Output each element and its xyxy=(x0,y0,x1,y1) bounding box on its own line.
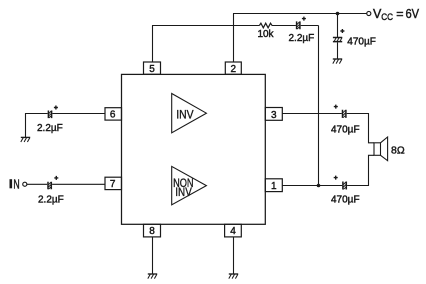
pin 4 xyxy=(225,224,242,237)
resistor R1 10k xyxy=(259,23,272,28)
svg-text:INV: INV xyxy=(176,107,193,121)
svg-text:7: 7 xyxy=(110,179,116,190)
svg-text:=: = xyxy=(396,7,403,21)
node junction on VCC rail xyxy=(336,12,340,16)
speaker LS1 xyxy=(374,137,405,161)
terminal VCC xyxy=(367,11,371,15)
wire cap to pin 7 xyxy=(52,183,105,185)
node junction at pin1 wire xyxy=(317,184,321,188)
wire resistor to cap xyxy=(272,25,296,27)
wire cap to speaker top xyxy=(347,114,374,143)
pin 5 xyxy=(144,62,161,75)
svg-text:2.2µF: 2.2µF xyxy=(37,123,63,134)
op-amp INV xyxy=(172,94,207,133)
svg-text:2.2µF: 2.2µF xyxy=(38,195,64,206)
capacitor C out-bottom 470uF xyxy=(331,176,360,206)
wire VCC rail xyxy=(233,13,367,15)
wire IN to cap xyxy=(27,183,48,185)
svg-text:2.2µF: 2.2µF xyxy=(289,33,315,44)
capacitor C out-top 470uF xyxy=(331,105,360,136)
svg-text:6: 6 xyxy=(110,110,116,121)
wire ground up and right to cap xyxy=(26,114,48,138)
wire cap to feedback drop xyxy=(301,25,319,27)
pin 3 xyxy=(265,108,282,121)
ground decoupling xyxy=(333,58,342,60)
svg-text:1: 1 xyxy=(271,181,277,192)
wire pin1 output xyxy=(282,185,342,187)
svg-text:4: 4 xyxy=(230,226,236,237)
svg-text:5: 5 xyxy=(149,64,155,75)
wire pin3 output xyxy=(282,113,342,115)
svg-text:6V: 6V xyxy=(406,7,420,21)
wire VCC to decoupling cap xyxy=(337,14,339,38)
wire feedback drop xyxy=(318,26,320,186)
svg-text:470µF: 470µF xyxy=(331,194,360,205)
svg-text:2: 2 xyxy=(231,64,237,75)
wire cap to ground xyxy=(337,42,339,59)
svg-text:470µF: 470µF xyxy=(347,37,376,48)
pin 2 xyxy=(225,62,241,75)
pin 6 xyxy=(105,108,122,121)
pin 1 xyxy=(265,179,282,192)
wire pin2 riser xyxy=(233,14,235,63)
input top branch: ground xyxy=(21,136,30,138)
wire pin 4 to ground xyxy=(233,237,235,274)
svg-text:3: 3 xyxy=(271,110,277,121)
ground pin 8 xyxy=(148,273,157,275)
pin 7 xyxy=(105,177,122,190)
wire pin 8 to ground xyxy=(152,237,154,274)
IC U1 body xyxy=(122,74,266,224)
ground pin 4 xyxy=(229,273,238,275)
svg-text:8: 8 xyxy=(149,226,155,237)
svg-text:470µF: 470µF xyxy=(331,125,360,136)
capacitor C feedback 2.2uF xyxy=(289,17,315,44)
svg-text:INV: INV xyxy=(175,185,192,199)
wire feedback branch left xyxy=(152,25,259,27)
pin 8 xyxy=(144,224,161,237)
wire cap to speaker bottom xyxy=(347,155,374,185)
capacitor C decoupling 470uF xyxy=(333,29,376,48)
svg-text:8Ω: 8Ω xyxy=(391,145,405,157)
svg-text:10k: 10k xyxy=(257,29,274,40)
capacitor C in-bottom 2.2uF xyxy=(38,176,64,206)
terminal IN xyxy=(23,182,27,186)
capacitor C in-top 2.2uF xyxy=(37,106,63,135)
op-amp NON INV xyxy=(172,166,207,204)
wire pin5 riser xyxy=(152,26,154,63)
label VCC = 6V xyxy=(373,7,420,23)
svg-text:N: N xyxy=(13,177,19,191)
svg-text:CC: CC xyxy=(381,12,393,23)
label IN xyxy=(10,179,13,188)
wire cap to pin 6 xyxy=(52,113,105,115)
